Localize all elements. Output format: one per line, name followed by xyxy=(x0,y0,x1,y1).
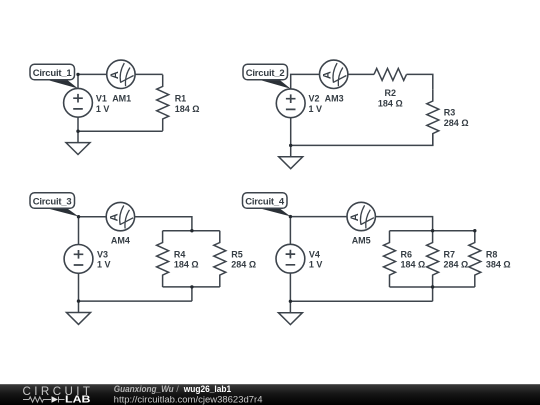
svg-text:Circuit_3: Circuit_3 xyxy=(33,197,72,208)
svg-text:1 V: 1 V xyxy=(96,104,110,114)
svg-text:V1: V1 xyxy=(96,93,107,103)
svg-text:Circuit_4: Circuit_4 xyxy=(245,197,285,208)
svg-text:284 Ω: 284 Ω xyxy=(444,260,469,270)
svg-text:1 V: 1 V xyxy=(97,260,111,270)
svg-text:Circuit_2: Circuit_2 xyxy=(246,68,285,79)
svg-text:184 Ω: 184 Ω xyxy=(401,260,426,270)
svg-text:R5: R5 xyxy=(231,249,243,259)
svg-text:wug26_lab1: wug26_lab1 xyxy=(183,384,231,394)
svg-text:AM4: AM4 xyxy=(111,236,130,246)
svg-text:R7: R7 xyxy=(444,249,456,259)
svg-text:R6: R6 xyxy=(401,249,413,259)
svg-text:AM5: AM5 xyxy=(352,236,371,246)
svg-text:R3: R3 xyxy=(444,107,456,117)
svg-text:AM3: AM3 xyxy=(325,93,344,103)
svg-text:http://circuitlab.com/cjew3862: http://circuitlab.com/cjew38623d7r4 xyxy=(114,394,263,404)
svg-text:384 Ω: 384 Ω xyxy=(486,260,511,270)
svg-text:Circuit_1: Circuit_1 xyxy=(33,68,73,79)
svg-text:AM1: AM1 xyxy=(112,93,131,103)
svg-text:284 Ω: 284 Ω xyxy=(231,260,256,270)
svg-text:V2: V2 xyxy=(309,93,320,103)
svg-text:/: / xyxy=(176,384,179,394)
svg-text:R4: R4 xyxy=(174,249,186,259)
svg-text:R1: R1 xyxy=(175,93,187,103)
svg-text:R2: R2 xyxy=(385,88,397,98)
svg-text:R8: R8 xyxy=(486,249,498,259)
svg-text:V4: V4 xyxy=(309,249,320,259)
svg-text:184 Ω: 184 Ω xyxy=(174,260,199,270)
svg-text:Guanxiong_Wu: Guanxiong_Wu xyxy=(114,384,174,394)
svg-text:184 Ω: 184 Ω xyxy=(378,99,403,109)
svg-text:184 Ω: 184 Ω xyxy=(175,104,200,114)
svg-text:V3: V3 xyxy=(97,249,108,259)
svg-text:1 V: 1 V xyxy=(309,104,323,114)
svg-text:284 Ω: 284 Ω xyxy=(444,118,469,128)
svg-text:LAB: LAB xyxy=(65,395,91,405)
svg-text:1 V: 1 V xyxy=(309,260,323,270)
